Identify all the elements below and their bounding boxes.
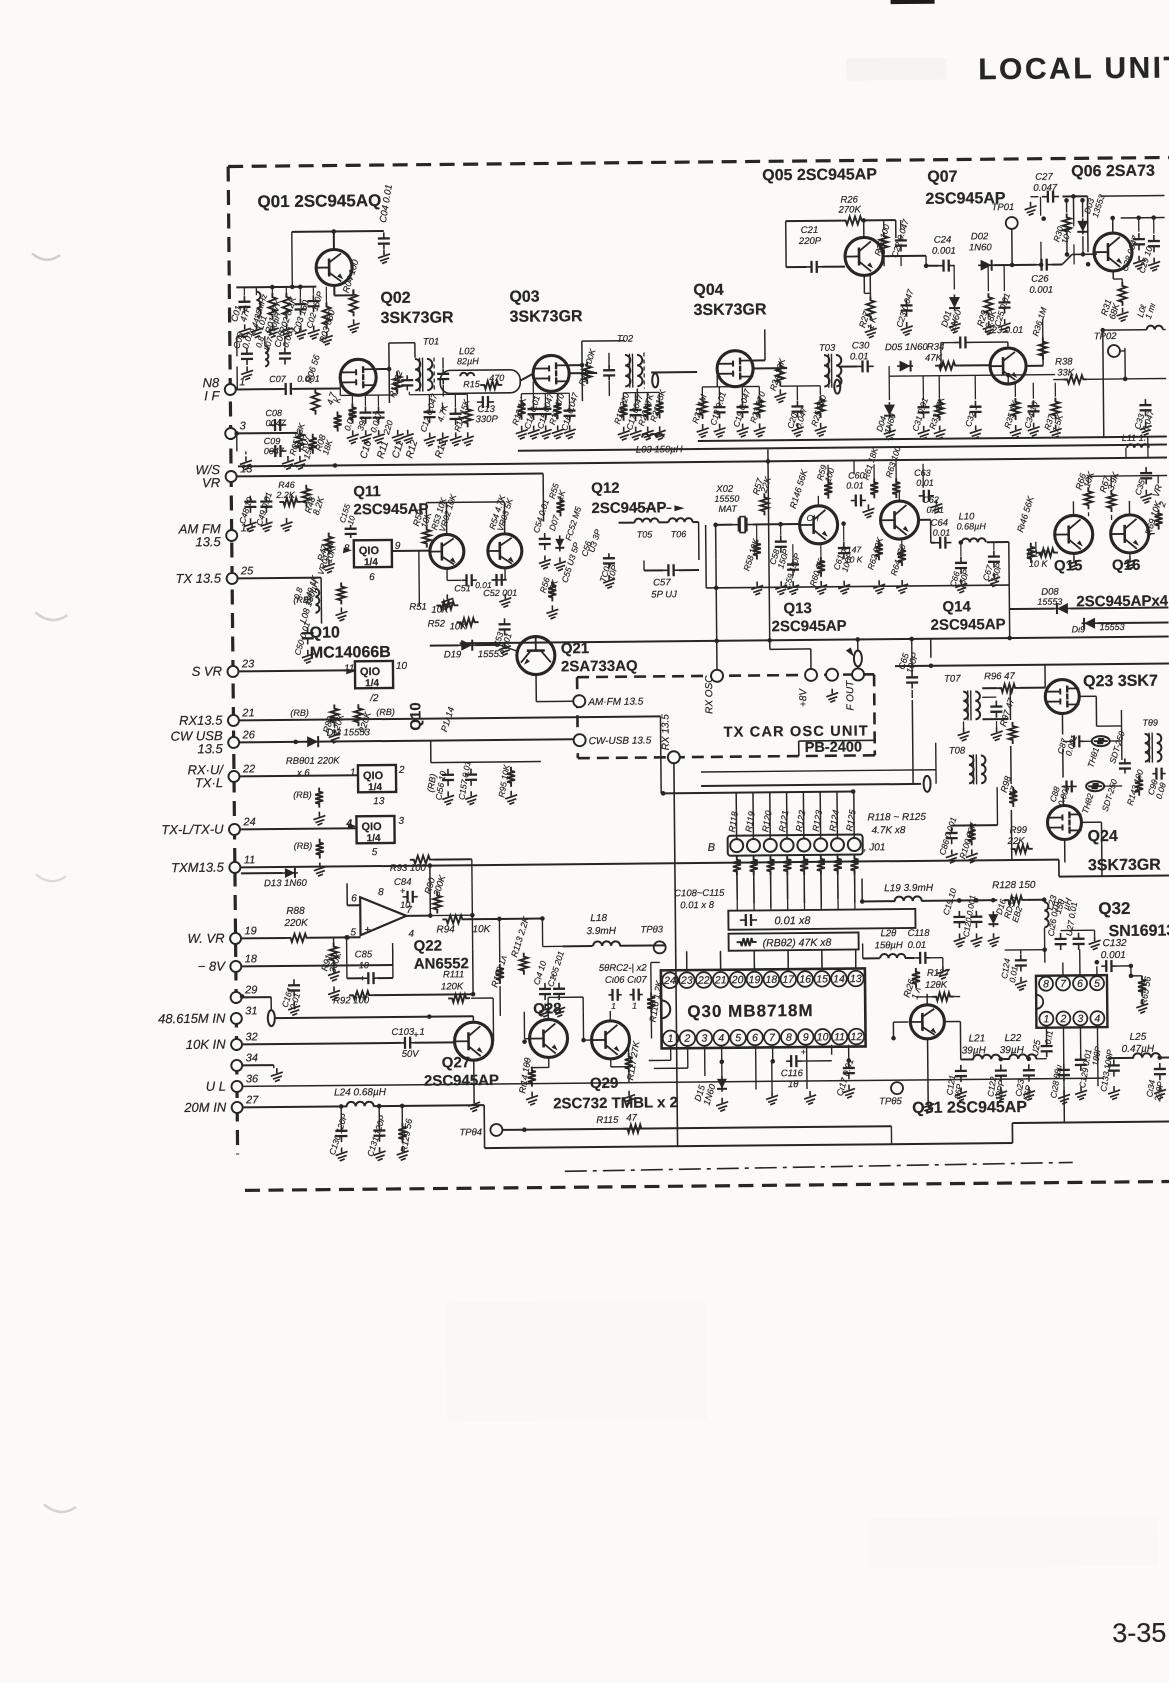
wire rx135 ladder xyxy=(659,716,662,793)
fold mark a xyxy=(32,253,60,260)
resistor R124 xyxy=(827,792,842,899)
svg-text:MC14066B: MC14066B xyxy=(310,644,391,662)
pin 16 Q30 xyxy=(797,971,813,987)
fold mark d xyxy=(44,1504,76,1512)
connector pin 22 xyxy=(187,762,255,791)
svg-text:21: 21 xyxy=(714,974,727,986)
port CW-USB xyxy=(574,733,652,747)
svg-text:(RB): (RB) xyxy=(290,708,309,718)
capacitor C24 xyxy=(932,235,956,272)
wire amfm link xyxy=(536,674,573,701)
wire stubs r30 d03 xyxy=(1038,194,1076,267)
capacitor C67 xyxy=(980,550,1004,583)
capacitor C25 xyxy=(992,291,1013,327)
svg-text:25: 25 xyxy=(240,565,254,577)
resistor R64 xyxy=(888,543,908,577)
capacitor C23 xyxy=(941,325,1024,366)
wire Q01 collector xyxy=(292,229,384,250)
wire rxu bus xyxy=(240,775,358,776)
svg-text:6: 6 xyxy=(1077,978,1083,990)
wire svr xyxy=(239,670,355,671)
svg-text:12: 12 xyxy=(851,1031,863,1043)
svg-text:L18: L18 xyxy=(590,913,607,924)
svg-text:39µH: 39µH xyxy=(1000,1045,1025,1056)
inductor L21 xyxy=(961,1033,1010,1059)
connector pin 3 xyxy=(225,420,247,439)
resistor R97 xyxy=(998,696,1017,744)
capacitor C50 xyxy=(292,620,314,663)
svg-text:Dι9: Dι9 xyxy=(1072,624,1086,634)
transformer T07 xyxy=(944,673,980,720)
resistor R129 xyxy=(396,1106,414,1161)
capacitor C134 xyxy=(1144,1063,1166,1103)
wire r116 links xyxy=(651,962,661,1038)
resistor R18 xyxy=(576,347,598,387)
inductor T05 xyxy=(635,518,659,539)
capacitor C103 xyxy=(391,1026,454,1060)
capacitor C90 xyxy=(1145,768,1168,801)
port gnd xyxy=(826,669,838,703)
wire q15 feeds xyxy=(1058,501,1130,557)
label J01 text xyxy=(863,812,926,854)
capacitor C126 xyxy=(1045,899,1066,950)
svg-text:1: 1 xyxy=(611,1001,616,1011)
transistor Q06 xyxy=(1094,233,1132,271)
testpoint TP01 xyxy=(992,202,1018,229)
wire q23 links xyxy=(895,663,1169,824)
svg-text:Q16: Q16 xyxy=(1112,557,1141,574)
label Q23 xyxy=(1083,673,1158,691)
label R147 xyxy=(841,544,863,564)
wire txl bus xyxy=(241,828,357,829)
wire pin29 loop xyxy=(242,997,271,1010)
resistor R15 xyxy=(463,373,504,389)
wire q31 xyxy=(893,994,961,1114)
svg-text:22K: 22K xyxy=(1007,836,1026,847)
svg-text:20: 20 xyxy=(731,974,744,986)
inductor L22 xyxy=(999,1033,1046,1059)
wire t05 wires xyxy=(619,522,699,561)
svg-text:T02: T02 xyxy=(617,334,634,345)
label R112 xyxy=(489,954,509,989)
wire to q08 xyxy=(959,364,989,366)
page title LOCAL UNIT xyxy=(978,51,1169,86)
pin 21 Q30 xyxy=(713,972,729,988)
wire Q01 base feed xyxy=(236,232,317,288)
ground l19 row xyxy=(954,933,1000,947)
transistor Q16 xyxy=(1111,515,1149,553)
svg-text:QIO: QIO xyxy=(363,770,384,782)
svg-text:3: 3 xyxy=(1077,1013,1083,1025)
capacitor C131 xyxy=(365,1106,388,1161)
wire t02 out xyxy=(637,372,697,401)
label Q22 xyxy=(414,937,469,973)
svg-text:R115: R115 xyxy=(596,1115,619,1126)
ground mid1 xyxy=(282,456,306,470)
pin 1 Q32 xyxy=(1039,1012,1053,1026)
testpoint TP03 xyxy=(640,924,665,962)
svg-text:R147: R147 xyxy=(841,544,862,554)
svg-text:D05 1N60: D05 1N60 xyxy=(885,342,929,353)
pot R53/VR02 xyxy=(429,493,459,534)
capacitor C34 xyxy=(1022,400,1040,430)
resistor R01 xyxy=(263,293,284,335)
wire r117 links xyxy=(628,1047,630,1083)
diode D13 xyxy=(241,868,308,890)
wire +8v up xyxy=(770,649,811,669)
label 3SK73GR xyxy=(1088,857,1162,875)
svg-text:QIO: QIO xyxy=(361,821,382,833)
svg-text:Q22: Q22 xyxy=(414,937,443,954)
svg-text:17: 17 xyxy=(782,974,795,986)
capacitor C19b xyxy=(940,887,965,929)
switch Q10 unit 4 xyxy=(345,816,404,859)
svg-text:R96 47: R96 47 xyxy=(984,671,1015,682)
resistor R14 xyxy=(452,398,472,433)
wire Q01 emitter xyxy=(334,285,353,295)
svg-text:24: 24 xyxy=(242,816,255,828)
svg-text:QIO: QIO xyxy=(359,545,380,557)
ground row q13 xyxy=(751,573,1000,595)
capacitor C129 xyxy=(1075,1048,1094,1100)
svg-text:L24 0.68µH: L24 0.68µH xyxy=(334,1087,387,1099)
connector pin 13 xyxy=(195,462,253,491)
svg-text:0.01: 0.01 xyxy=(933,528,951,538)
svg-text:3SK73GR: 3SK73GR xyxy=(510,308,584,326)
ground row q07 xyxy=(949,319,1011,335)
svg-text:2SC732 TMBL x 2: 2SC732 TMBL x 2 xyxy=(553,1094,678,1112)
wire q23 source xyxy=(1062,710,1122,805)
svg-text:21: 21 xyxy=(241,707,254,719)
svg-text:36: 36 xyxy=(246,1073,259,1085)
fet Q03 xyxy=(533,355,569,391)
svg-text:C52 001: C52 001 xyxy=(483,588,517,598)
svg-text:8: 8 xyxy=(1043,978,1049,990)
inductor L19 xyxy=(862,877,997,901)
pin 4 Q32 xyxy=(1090,1011,1104,1025)
svg-text:Q23 3SK7: Q23 3SK7 xyxy=(1083,673,1158,691)
svg-text:2: 2 xyxy=(1059,1013,1066,1025)
capacitor C124 xyxy=(999,950,1045,991)
diode D12 xyxy=(305,727,371,747)
wire q11 vert link xyxy=(542,473,544,521)
wire q21 top xyxy=(500,637,536,652)
ground row q03 xyxy=(516,425,576,439)
pin 23 Q30 xyxy=(679,972,695,988)
resistor R07b xyxy=(301,434,317,461)
capacitor C19 xyxy=(731,387,753,428)
page number 3-35 xyxy=(1112,1618,1166,1649)
resistor R25 xyxy=(809,393,829,427)
capacitor C07 xyxy=(269,374,320,395)
connector pin 21 xyxy=(179,707,255,728)
pin 20 Q30 xyxy=(730,972,746,988)
svg-text:4: 4 xyxy=(1094,1013,1100,1025)
capacitor C12 xyxy=(418,392,440,433)
transformer T09 xyxy=(1142,718,1161,763)
svg-text:18: 18 xyxy=(245,953,258,965)
svg-text:Cι06 Cι07: Cι06 Cι07 xyxy=(605,975,648,986)
inductor L24 xyxy=(243,1086,485,1150)
wire Q02 in xyxy=(236,382,340,389)
inductor L08 xyxy=(291,579,321,625)
label Q15 xyxy=(1054,557,1083,574)
svg-text:QIO: QIO xyxy=(360,666,381,678)
svg-text:3: 3 xyxy=(398,816,404,827)
label Q07 xyxy=(925,168,1006,208)
resistor R09 xyxy=(334,411,342,431)
svg-text:C21: C21 xyxy=(801,225,819,236)
label Q14 xyxy=(930,598,1005,634)
resistor R119 xyxy=(743,792,758,903)
svg-text:6: 6 xyxy=(752,1032,758,1044)
svg-text:C63: C63 xyxy=(914,468,931,478)
inductor L01b xyxy=(254,311,283,366)
connector pin 32 xyxy=(186,1031,258,1052)
svg-text:3: 3 xyxy=(701,1033,707,1045)
smudge c xyxy=(868,1516,1158,1569)
rot labels bus xyxy=(297,431,450,461)
svg-text:32: 32 xyxy=(245,1031,257,1043)
wire q24 gnd xyxy=(1064,840,1066,863)
diode D07 xyxy=(547,514,564,552)
ground C04 xyxy=(378,250,390,264)
svg-text:C24: C24 xyxy=(934,235,952,246)
capacitor C117 xyxy=(834,1058,856,1099)
resistor R50 xyxy=(411,508,434,547)
svg-text:0.001: 0.001 xyxy=(1029,285,1053,296)
label 50RC2 xyxy=(599,963,648,974)
svg-text:33K: 33K xyxy=(1057,367,1075,378)
label P1A14 xyxy=(439,706,457,734)
svg-text:T05: T05 xyxy=(637,529,654,539)
resistor R93 xyxy=(390,856,434,874)
fet Q24 xyxy=(1047,805,1081,839)
svg-text:TP01: TP01 xyxy=(992,202,1015,213)
svg-text:12θK: 12θK xyxy=(925,980,948,991)
wire pin34 stub xyxy=(243,1065,283,1082)
wire ul bus xyxy=(243,1078,1104,1086)
wire q08 coll xyxy=(1008,337,1043,366)
fold mark b xyxy=(35,612,67,620)
svg-text:8: 8 xyxy=(786,1032,792,1044)
pin 2 Q32 xyxy=(1056,1011,1070,1025)
svg-text:13.5: 13.5 xyxy=(197,741,223,756)
svg-text:0.001: 0.001 xyxy=(932,246,956,257)
transistor Q29 xyxy=(591,1021,629,1059)
wire 770 vert xyxy=(768,449,770,649)
ground C27 xyxy=(1024,197,1038,216)
svg-text:0.01: 0.01 xyxy=(916,478,934,488)
ground q06 xyxy=(1116,256,1161,322)
capacitor C27 xyxy=(1033,172,1059,203)
svg-text:10K: 10K xyxy=(472,924,491,935)
wire centerline xyxy=(565,1162,1073,1171)
wire bus 641 xyxy=(460,636,1169,643)
wire pin1 feed xyxy=(236,387,340,390)
testpoint TP05 xyxy=(879,1082,903,1107)
oval FOUT xyxy=(846,638,862,668)
wire txm bus xyxy=(241,858,1169,884)
svg-text:27: 27 xyxy=(245,1094,259,1106)
svg-text:1/4: 1/4 xyxy=(364,557,378,568)
svg-text:F OUT: F OUT xyxy=(845,680,856,711)
capacitor C59 xyxy=(782,552,802,590)
svg-text:0.01: 0.01 xyxy=(850,351,869,362)
svg-text:B: B xyxy=(708,842,715,854)
svg-text:C116: C116 xyxy=(781,1068,804,1079)
svg-text:47K: 47K xyxy=(925,353,943,364)
resistor R88 xyxy=(241,905,360,942)
thermistor TH02 xyxy=(1079,781,1104,815)
svg-text:R51: R51 xyxy=(409,602,427,613)
label R146b xyxy=(1015,494,1037,563)
diode D02 xyxy=(969,231,994,271)
svg-text:Q07: Q07 xyxy=(927,169,958,186)
wire q23 gate xyxy=(931,638,997,689)
svg-text:RX 13.5: RX 13.5 xyxy=(660,714,671,751)
svg-text:Q05 2SC945AP: Q05 2SC945AP xyxy=(762,166,877,184)
wire q13 bottom bus xyxy=(706,522,1010,590)
svg-text:5P UJ: 5P UJ xyxy=(651,589,677,600)
port RXOSC xyxy=(704,670,723,714)
wire right edge xyxy=(1088,437,1167,485)
resistor R49 xyxy=(337,582,345,604)
svg-text:1N60: 1N60 xyxy=(969,242,993,253)
switch Q10 unit 2 xyxy=(344,661,408,705)
resistor R113 xyxy=(509,914,532,974)
inductor T06 xyxy=(669,518,693,539)
capacitor C87 xyxy=(1055,733,1084,757)
svg-text:1: 1 xyxy=(350,767,356,778)
label C29 xyxy=(1136,218,1160,275)
svg-text:SN16913: SN16913 xyxy=(1108,922,1169,940)
wire q13 out xyxy=(919,520,935,543)
svg-text:11: 11 xyxy=(834,1031,845,1043)
svg-text:TX-L/TX-U: TX-L/TX-U xyxy=(161,822,224,838)
transistor Q27 xyxy=(454,1022,492,1060)
connector pin 23 xyxy=(192,658,256,679)
label Q11 xyxy=(353,483,428,519)
svg-text:L21: L21 xyxy=(969,1033,986,1044)
diode D04 xyxy=(874,402,898,435)
pin 3 Q30 xyxy=(696,1030,712,1046)
capacitor C05 xyxy=(231,330,255,365)
diode D03 xyxy=(1077,193,1107,257)
resistor R100 xyxy=(957,821,979,863)
IC Q32 box xyxy=(1036,975,1107,1028)
svg-text:0.01: 0.01 xyxy=(908,940,927,951)
capacitor C06 xyxy=(272,325,297,365)
resistor R58 xyxy=(741,537,761,572)
svg-text:R46: R46 xyxy=(278,480,295,490)
svg-text:T06: T06 xyxy=(671,529,687,539)
label 4.7K xyxy=(325,390,344,406)
svg-text:D02: D02 xyxy=(971,231,989,242)
svg-text:TX CAR OSC UNIT: TX CAR OSC UNIT xyxy=(724,723,869,740)
svg-text:MAT: MAT xyxy=(718,504,738,514)
connector pin 34 xyxy=(231,1052,258,1071)
label U25 xyxy=(1030,1038,1043,1057)
capacitor C121 xyxy=(944,1065,967,1101)
svg-text:Q01 2SC945AQ: Q01 2SC945AQ xyxy=(257,191,381,211)
wire stubs q13 xyxy=(757,520,994,559)
ground R27 xyxy=(864,275,877,338)
capacitor C65 xyxy=(896,639,921,698)
svg-text:(RB): (RB) xyxy=(293,790,312,800)
wire bus C xyxy=(237,473,543,476)
board outline (dashed border) xyxy=(228,157,1169,1191)
fet Q04 xyxy=(717,350,753,386)
svg-text:VR: VR xyxy=(202,475,220,490)
svg-text:R118 ~ R125: R118 ~ R125 xyxy=(867,812,926,824)
wire ladder into boxes xyxy=(737,875,855,911)
label Q16 xyxy=(1112,557,1141,574)
wire t08 in xyxy=(701,742,967,794)
svg-text:C07: C07 xyxy=(269,374,287,384)
capacitor C28 xyxy=(1119,218,1145,273)
diode D01 xyxy=(939,294,964,332)
svg-text:T08: T08 xyxy=(949,745,966,756)
label Q02 xyxy=(380,289,454,327)
inductor L01 xyxy=(248,292,270,335)
capacitor C51 xyxy=(454,574,492,593)
label 2SC732 xyxy=(553,1094,678,1112)
capacitor C13 xyxy=(475,396,498,425)
svg-text:T01: T01 xyxy=(423,336,439,347)
port FOUT xyxy=(845,668,864,710)
label 18K xyxy=(320,438,334,456)
svg-text:R88: R88 xyxy=(286,906,305,917)
connector bead xyxy=(242,1008,473,1026)
svg-text:39µH: 39µH xyxy=(962,1045,987,1056)
svg-text:3: 3 xyxy=(240,420,247,432)
ground q30 b xyxy=(804,1091,816,1105)
svg-text:15553: 15553 xyxy=(1037,597,1062,607)
resistor R126 xyxy=(901,968,923,1001)
svg-text:Q13: Q13 xyxy=(783,600,812,617)
network C108-C115 xyxy=(674,886,915,930)
svg-text:1: 1 xyxy=(1043,1013,1049,1025)
cap pair T01 xyxy=(437,357,449,396)
svg-text:1/4: 1/4 xyxy=(367,833,381,844)
label Q10 xyxy=(310,624,391,662)
cap TC01 xyxy=(597,553,620,583)
pin 7 Q30 xyxy=(764,1029,780,1045)
svg-text:W. VR: W. VR xyxy=(187,931,224,946)
wire stubs q03 cluster xyxy=(521,380,659,404)
resistor R35 xyxy=(1002,398,1021,430)
transformer T03 xyxy=(819,343,842,394)
resistor R37 xyxy=(1042,397,1065,433)
resistor R55 xyxy=(547,482,568,517)
svg-text:7: 7 xyxy=(406,905,412,916)
capacitor C90v xyxy=(1119,758,1131,773)
svg-text:2SC945AP: 2SC945AP xyxy=(930,616,1005,634)
label VR01 1K xyxy=(301,540,336,604)
connector pin 12 xyxy=(178,521,253,550)
svg-text:RX13.5: RX13.5 xyxy=(179,713,223,728)
pin 1 Q30 xyxy=(663,1030,679,1046)
IC Q30 box xyxy=(661,968,866,1048)
resistor R121 xyxy=(777,792,792,899)
pin 17 Q30 xyxy=(780,971,796,987)
svg-text:3SK73GR: 3SK73GR xyxy=(381,309,455,327)
transistor Q05 xyxy=(845,237,883,275)
svg-text:0.47µH: 0.47µH xyxy=(1122,1044,1155,1055)
capacitor C88 xyxy=(1047,780,1076,807)
diode D16 xyxy=(988,893,1024,927)
